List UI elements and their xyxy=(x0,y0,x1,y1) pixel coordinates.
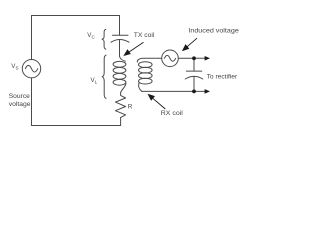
wire bottom RX to right arrow xyxy=(142,90,206,92)
resistor R zigzag xyxy=(115,93,125,118)
arrow RX coil label xyxy=(148,95,165,110)
wire left vertical lower xyxy=(31,78,33,126)
capacitor right bottom lead xyxy=(193,76,195,91)
svg-text:To rectifier: To rectifier xyxy=(207,74,238,81)
svg-text:TX coil: TX coil xyxy=(134,32,155,39)
inductor TX coil turn 4 xyxy=(113,79,126,85)
junction dot top xyxy=(192,56,196,60)
source VS circle xyxy=(22,59,40,77)
capacitor C (VC) top lead xyxy=(119,16,121,36)
svg-text:RX coil: RX coil xyxy=(161,110,183,117)
svg-text:R: R xyxy=(128,104,133,111)
junction dot bottom xyxy=(192,90,196,94)
inductor TX coil entry curve xyxy=(120,56,126,61)
inductor RX coil turn 4 xyxy=(139,78,153,84)
capacitor right flat plate xyxy=(186,70,202,72)
inductor RX coil turn 3 xyxy=(139,73,153,79)
arrowhead to rectifier bottom xyxy=(205,89,210,94)
wire bottom horizontal xyxy=(32,125,121,127)
source induced-voltage circle xyxy=(162,50,179,67)
svg-text:voltage: voltage xyxy=(9,101,31,108)
capacitor right curved plate xyxy=(185,76,203,79)
capacitor C (VC) bottom lead xyxy=(119,40,121,56)
source VS sine xyxy=(25,65,37,72)
inductor TX coil exit curve xyxy=(121,84,126,93)
wire bottom right vertical xyxy=(120,118,122,126)
source induced-voltage sine xyxy=(164,55,175,61)
svg-text:Induced voltage: Induced voltage xyxy=(188,28,239,35)
capacitor right top lead xyxy=(193,58,195,71)
wire top horizontal xyxy=(32,15,120,17)
capacitor C (VC) flat plate xyxy=(112,34,128,36)
wire circle to top-right arrow xyxy=(178,57,206,59)
svg-text:Source: Source xyxy=(9,93,30,100)
wire left vertical upper xyxy=(31,16,33,60)
brace VL xyxy=(102,55,107,99)
arrowhead to rectifier top xyxy=(205,56,210,61)
inductor RX coil turn 2 xyxy=(139,67,153,73)
capacitor C (VC) curved plate xyxy=(111,40,129,43)
arrow TX coil label xyxy=(124,42,143,55)
inductor TX coil turn 2 xyxy=(113,67,126,73)
brace VC xyxy=(102,29,106,49)
arrow Induced voltage label xyxy=(183,38,197,50)
inductor TX coil turn 1 xyxy=(113,61,126,67)
inductor RX coil turn 1 xyxy=(139,62,153,68)
inductor TX coil turn 3 xyxy=(113,73,126,79)
inductor RX coil entry wire xyxy=(137,58,161,62)
inductor RX coil exit curve xyxy=(139,82,142,91)
